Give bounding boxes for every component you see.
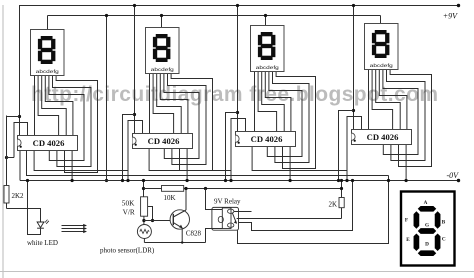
svg-text:CD 4026: CD 4026	[251, 134, 283, 144]
svg-text:50K: 50K	[122, 198, 135, 207]
svg-text:D: D	[425, 241, 429, 247]
svg-text:9V Relay: 9V Relay	[214, 197, 241, 205]
svg-text:2K: 2K	[328, 200, 337, 208]
svg-text:B: B	[442, 219, 446, 225]
svg-text:-0V: -0V	[446, 171, 459, 180]
svg-text:CD 4026: CD 4026	[33, 138, 65, 148]
svg-text:C: C	[442, 236, 446, 242]
svg-text:F: F	[405, 217, 408, 223]
svg-text:abcdefg: abcdefg	[256, 65, 280, 70]
svg-text:+9V: +9V	[443, 12, 458, 21]
svg-text:10K: 10K	[163, 194, 175, 202]
svg-text:photo sensor(LDR): photo sensor(LDR)	[100, 247, 155, 255]
svg-text:C828: C828	[186, 230, 202, 238]
svg-text:white LED: white LED	[27, 239, 58, 247]
svg-text:abcdefg: abcdefg	[36, 69, 60, 74]
svg-text:CD 4026: CD 4026	[148, 136, 180, 146]
svg-text:G: G	[425, 222, 429, 228]
svg-text:A: A	[424, 200, 428, 206]
svg-text:CD 4026: CD 4026	[367, 132, 399, 142]
svg-text:2K2: 2K2	[12, 192, 25, 200]
svg-text:E: E	[406, 237, 410, 243]
svg-text:abcdefg: abcdefg	[370, 63, 394, 68]
svg-text:V/R: V/R	[123, 208, 135, 217]
svg-text:abcdefg: abcdefg	[151, 67, 175, 72]
